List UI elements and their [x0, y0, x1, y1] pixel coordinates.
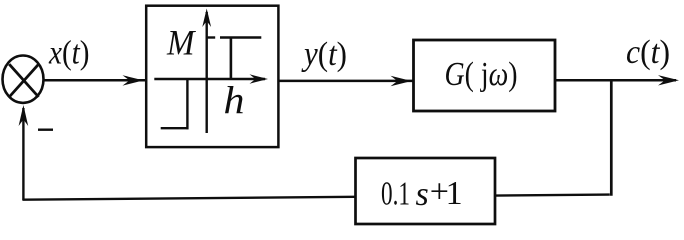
M tick on axis [208, 36, 216, 38]
minus sign [38, 128, 53, 130]
svg-text:1: 1 [446, 175, 463, 212]
block G(jw) [414, 40, 556, 111]
svg-text:h: h [224, 80, 245, 123]
svg-text:c(t): c(t) [626, 34, 670, 71]
arrowhead into nonlinearity [123, 75, 144, 85]
svg-text:y(t): y(t) [301, 36, 347, 73]
vertical axis [205, 12, 207, 133]
output wire c(t) [555, 79, 676, 82]
hysteresis lower branch -M [161, 127, 189, 129]
vertical axis arrowhead [202, 9, 211, 28]
output arrowhead [658, 75, 679, 85]
wire y(t): nonlinearity to G block [278, 80, 413, 83]
feedback horizontal wire (right corner to left corner, slight scan skew) [22, 195, 609, 200]
hysteresis jump at -h [186, 79, 188, 129]
feedback takeoff node and vertical wire down [610, 80, 613, 195]
wire x(t): summer to nonlinearity block [43, 79, 145, 82]
summing junction [3, 55, 44, 102]
arrowhead into summer (pointing up) [19, 105, 29, 126]
arrowhead into G block [391, 76, 412, 86]
hysteresis jump at +h [230, 38, 233, 80]
svg-text:G( jω): G( jω) [445, 56, 518, 93]
feedback left vertical wire up to summer [22, 108, 24, 200]
hysteresis upper branch +M [220, 36, 261, 38]
nonlinearity block (relay with hysteresis) [146, 6, 278, 147]
svg-text:M: M [166, 23, 196, 63]
svg-text:0.1: 0.1 [381, 176, 410, 213]
horizontal axis [154, 78, 265, 80]
svg-text:s: s [416, 176, 429, 213]
svg-text:x(t): x(t) [48, 35, 89, 72]
block 0.1s+1 [356, 158, 496, 224]
horizontal axis arrowhead [250, 74, 269, 83]
